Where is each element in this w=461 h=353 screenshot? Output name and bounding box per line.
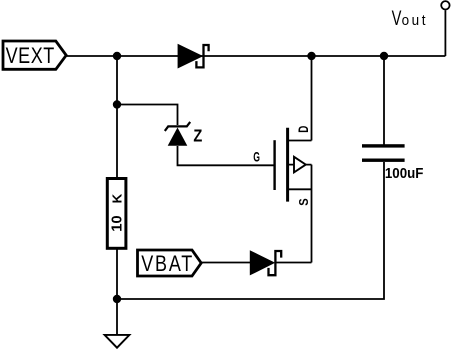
svg-text:V: V — [392, 7, 402, 30]
svg-text:out: out — [402, 13, 426, 30]
svg-text:K: K — [110, 193, 125, 203]
svg-text:10: 10 — [110, 215, 126, 231]
svg-text:S: S — [296, 198, 311, 205]
svg-text:D: D — [295, 125, 311, 132]
svg-text:100uF: 100uF — [385, 165, 424, 182]
svg-text:VBAT: VBAT — [141, 252, 194, 276]
svg-text:VEXT: VEXT — [6, 44, 55, 68]
svg-text:Z: Z — [193, 126, 202, 146]
svg-text:G: G — [253, 151, 260, 165]
